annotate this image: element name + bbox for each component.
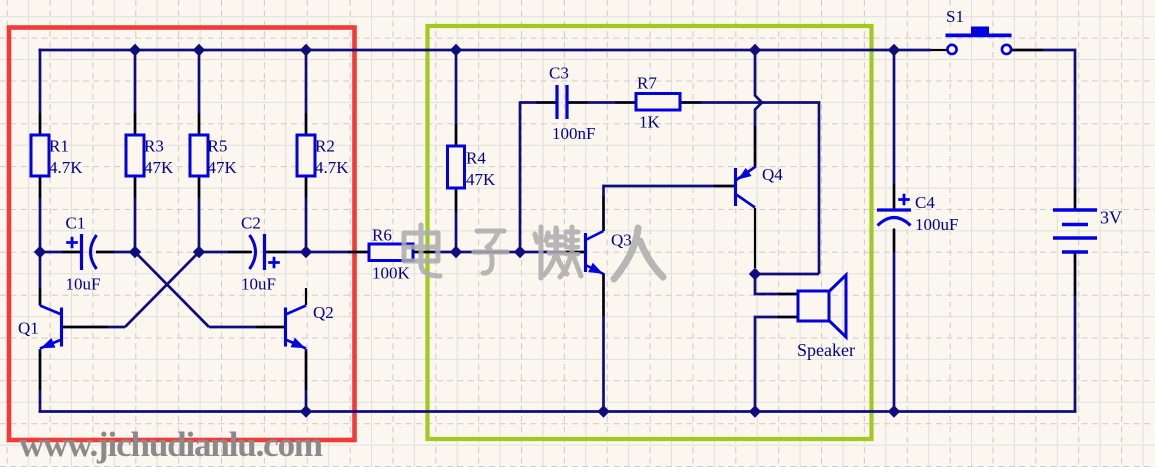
svg-text:47K: 47K xyxy=(208,158,238,177)
svg-text:C4: C4 xyxy=(915,193,935,212)
pin stub Q2 base pin xyxy=(256,326,284,328)
pin stub Q4 base pin xyxy=(714,185,735,187)
junction: R2/C2/R6 node xyxy=(300,246,312,258)
junction: R4 bottom node xyxy=(450,246,462,258)
pin stub C2 pin - xyxy=(228,251,252,253)
svg-text:Speaker: Speaker xyxy=(797,340,855,360)
pin stub speaker pin 1 xyxy=(778,293,797,295)
svg-text:R3: R3 xyxy=(144,137,164,156)
pin stub R5 pin 1 xyxy=(198,113,200,136)
svg-text:10uF: 10uF xyxy=(66,275,101,294)
pin stub R7 pin 2 xyxy=(680,101,701,103)
pin stub R1 pin 1 xyxy=(39,113,41,136)
svg-text:100uF: 100uF xyxy=(915,215,958,234)
wire: R4 drop xyxy=(455,50,458,146)
svg-text:R2: R2 xyxy=(315,137,335,156)
pin stub R6 pin 1 xyxy=(348,251,369,253)
pin stub S1 pin 2 xyxy=(1011,49,1044,51)
junction: speaker ground xyxy=(749,405,761,417)
pin stub Q4 emitter pin xyxy=(754,126,756,166)
svg-text:47K: 47K xyxy=(144,158,174,177)
pin stub C3 pin 1 xyxy=(536,101,556,103)
capacitor C4 100uF (polarized) xyxy=(877,208,911,211)
wire: Q3 collector up and over to Q4 base xyxy=(604,186,735,231)
junction: C4 top xyxy=(888,44,900,56)
junction: R3/C1 node xyxy=(129,246,141,258)
resistor R7 1K xyxy=(636,94,680,111)
resistor R5 47K xyxy=(190,135,208,176)
pin stub Q3 base pin xyxy=(560,251,584,253)
svg-text:S1: S1 xyxy=(946,7,964,26)
junction: Q4 emitter supply xyxy=(749,44,761,56)
svg-text:C1: C1 xyxy=(66,214,86,233)
pin stub R3 pin 2 xyxy=(134,175,136,198)
red highlight box (astable multivibrator section) xyxy=(9,28,355,441)
wire: R7 output to feedback corner xyxy=(680,101,820,104)
junction: R5 top xyxy=(193,44,205,56)
junction: R4 top xyxy=(450,44,462,56)
pin stub R7 pin 1 xyxy=(615,101,636,103)
pin stub battery pin - xyxy=(1074,252,1076,296)
pin stub Q2 emitter pin xyxy=(305,351,307,390)
pin stub Q2 collector pin xyxy=(305,288,307,305)
wire: Q2 emitter to bottom bus xyxy=(305,349,308,412)
wire: R3 drop xyxy=(134,50,137,135)
wire: Q4 collector node down to speaker top pin xyxy=(755,274,798,294)
pin stub R6 pin 2 xyxy=(413,251,434,253)
pin stub Q3 collector pin xyxy=(602,196,604,231)
junction: Q3 emitter ground xyxy=(597,405,609,417)
pin stub Q1 emitter pin xyxy=(39,351,41,390)
svg-text:R5: R5 xyxy=(208,137,228,156)
svg-text:4.7K: 4.7K xyxy=(315,158,349,177)
resistor R4 47K xyxy=(448,146,465,188)
pin stub Q1 collector pin xyxy=(39,288,41,305)
svg-text:C3: C3 xyxy=(549,64,569,83)
svg-text:Q4: Q4 xyxy=(762,165,783,184)
wire: Q1 emitter to bottom bus xyxy=(39,349,42,412)
pin stub R2 pin 1 xyxy=(305,113,307,136)
pin stub S1 pin 1 xyxy=(931,49,947,51)
pin stub R3 pin 1 xyxy=(134,113,136,136)
svg-text:R1: R1 xyxy=(49,137,69,156)
resistor R6 100K xyxy=(369,244,413,261)
svg-text:10uF: 10uF xyxy=(241,275,276,294)
pin stub R5 pin 2 xyxy=(198,175,200,198)
transistor Q3 (NPN) xyxy=(584,233,587,272)
pushbutton switch S1 xyxy=(946,34,1012,38)
svg-text:3V: 3V xyxy=(1100,208,1122,228)
wire: cross-coupling C1 to Q2 base xyxy=(135,252,209,327)
junction: C3 branch node xyxy=(514,246,526,258)
wire: feedback to Q4 collector node xyxy=(755,273,819,276)
pin stub C1 pin - xyxy=(96,251,114,253)
wire: Q3 emitter to bottom bus xyxy=(602,273,605,412)
svg-text:100K: 100K xyxy=(372,264,411,283)
pin stub R1 pin 2 xyxy=(39,175,41,198)
pin stub C3 pin 2 xyxy=(567,101,588,103)
transistor Q1 (NPN) xyxy=(60,308,63,347)
transistor Q2 (NPN) xyxy=(284,308,287,347)
watermark: gray CJK characters (drawn) xyxy=(404,225,663,279)
junction: C4 ground xyxy=(888,405,900,417)
wire: left vertical (R1 branch) xyxy=(39,49,42,135)
wire: C2 row segment xyxy=(199,251,251,254)
svg-text:R6: R6 xyxy=(372,226,392,245)
resistor R3 47K xyxy=(126,135,144,176)
wire: C4 branch xyxy=(893,50,896,209)
transistor Q4 (PNP) xyxy=(734,168,737,206)
wire: S1 right to battery top xyxy=(1011,50,1075,209)
pin stub C4 pin + xyxy=(893,184,895,210)
resistor R1 4.7K xyxy=(31,135,49,176)
wire: cross-coupling C2 to Q1 base xyxy=(125,252,199,327)
svg-text:Q2: Q2 xyxy=(313,303,334,322)
junction: R5/C2 node xyxy=(193,246,205,258)
svg-text:1K: 1K xyxy=(639,113,661,132)
wire: R5 drop xyxy=(198,50,201,135)
wire: R6 row to Q3 base xyxy=(306,251,369,254)
pin stub C2 pin + xyxy=(265,251,287,253)
junction: R2 top xyxy=(300,44,312,56)
svg-text:4.7K: 4.7K xyxy=(49,158,83,177)
wire: C3 row xyxy=(520,101,556,104)
svg-text:R4: R4 xyxy=(466,149,486,168)
capacitor C2 10uF (polarized) xyxy=(263,234,266,270)
junction: Q2 emitter ground xyxy=(300,405,312,417)
green highlight box (amplifier section) xyxy=(428,26,872,439)
junction: R1/C1/Q1 node xyxy=(34,246,46,258)
wire: top supply bus xyxy=(39,49,932,52)
svg-text:Q1: Q1 xyxy=(18,319,39,338)
svg-text:47K: 47K xyxy=(466,170,496,189)
svg-text:Q3: Q3 xyxy=(611,231,632,250)
pin stub battery pin + xyxy=(1074,188,1076,210)
battery BT 3V xyxy=(1053,208,1097,211)
wire: Q4 emitter line with hop over C3-R7 wire xyxy=(755,50,762,168)
wire: feedback down xyxy=(818,103,821,275)
wire: speaker bottom pin to bottom bus xyxy=(755,317,798,412)
wire: bottom ground bus xyxy=(39,410,1077,413)
pin stub C4 pin - xyxy=(893,229,895,253)
junction: R3 top xyxy=(129,44,141,56)
pin stub R2 pin 2 xyxy=(305,175,307,198)
wire: C3 branch vertical xyxy=(519,101,522,252)
resistor R2 4.7K xyxy=(297,135,315,176)
pin stub Q1 base pin xyxy=(63,326,108,328)
wire: C1 row segment xyxy=(40,251,80,254)
pin stub Q3 emitter pin xyxy=(602,274,604,316)
wire: R2 drop xyxy=(305,50,308,135)
capacitor C1 10uF (polarized) xyxy=(80,234,83,270)
pin stub Q4 collector pin xyxy=(754,208,756,268)
speaker LS (Speaker) xyxy=(798,291,829,321)
pin stub R4 pin 2 xyxy=(455,187,457,212)
pin stub C1 pin + xyxy=(62,251,81,253)
junction: Q4 collector node xyxy=(749,268,761,280)
svg-text:100nF: 100nF xyxy=(552,124,595,143)
wire: battery bottom to bus xyxy=(1074,253,1077,412)
svg-text:www.jichudianlu.com: www.jichudianlu.com xyxy=(19,425,323,464)
svg-text:C2: C2 xyxy=(241,214,261,233)
capacitor C3 100nF xyxy=(555,85,558,119)
pin stub R4 pin 1 xyxy=(455,124,457,147)
svg-text:R7: R7 xyxy=(637,74,657,93)
pin stub speaker pin 2 xyxy=(778,316,797,318)
